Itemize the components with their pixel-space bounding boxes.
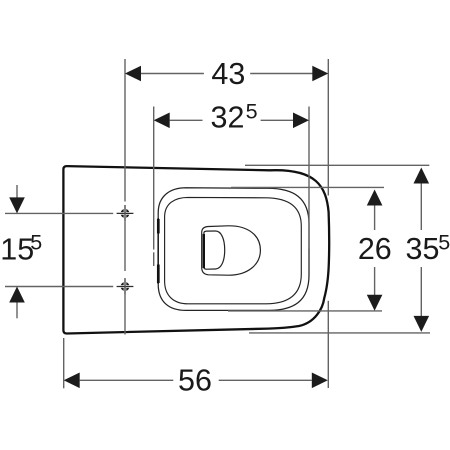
- seat buffer lower: [157, 265, 160, 284]
- arrow 32.5 left: [154, 113, 170, 129]
- seat outer contour: [158, 188, 309, 311]
- fixing hole symbol upper: [117, 205, 134, 222]
- svg-text:5: 5: [438, 231, 450, 255]
- extension line 26 top: [231, 186, 384, 188]
- svg-text:35: 35: [406, 232, 440, 266]
- extension line 26 bottom: [228, 310, 382, 312]
- dim line 56: [80, 379, 174, 381]
- extension line 32.5 left: [153, 107, 155, 250]
- bowl water outline: [202, 226, 261, 275]
- hole line lower: [5, 286, 113, 288]
- drain thick left edge: [203, 234, 205, 268]
- arrow 26 up: [367, 190, 383, 206]
- arrow 56 left: [64, 373, 80, 389]
- hole line upper: [5, 212, 113, 214]
- arrow 43 right: [312, 66, 328, 82]
- extension line 32.5 right: [308, 107, 310, 249]
- extension line 56 left: [63, 338, 65, 388]
- seat buffer upper: [157, 219, 160, 234]
- toilet outer outline: [63, 166, 329, 333]
- arrow 15.5 up: [9, 287, 25, 303]
- leader 15.5 bottom: [16, 302, 18, 318]
- extension line 35.5 top: [245, 164, 429, 166]
- arrows: [9, 66, 429, 388]
- svg-text:26: 26: [358, 232, 392, 266]
- arrow 32.5 right: [293, 113, 309, 129]
- arrow 43 left: [125, 66, 141, 82]
- dim line 32.5: [170, 119, 203, 121]
- svg-text:5: 5: [30, 231, 42, 255]
- arrow 26 down: [367, 295, 383, 311]
- seat left edge dark band: [157, 218, 159, 284]
- extension line 43+56 right: [327, 59, 329, 196]
- dim line 43: [141, 73, 204, 75]
- arrow 35.5 down: [414, 316, 430, 332]
- extension line 35.5 bottom: [249, 332, 430, 334]
- extension line 43 left / holes vertical: [5, 59, 430, 388]
- svg-text:32: 32: [211, 101, 245, 135]
- svg-text:56: 56: [178, 364, 212, 398]
- dim line 35.5: [420, 183, 422, 230]
- svg-text:43: 43: [211, 57, 245, 91]
- arrow 35.5 up: [414, 168, 430, 184]
- arrow 56 right: [312, 373, 328, 389]
- leader 15.5 top: [16, 185, 18, 198]
- drain outline: [204, 231, 225, 269]
- dim line 26: [374, 205, 376, 230]
- fixing hole symbol lower: [117, 278, 134, 295]
- svg-text:15: 15: [0, 233, 34, 267]
- svg-text:5: 5: [246, 100, 258, 124]
- arrow 15.5 down: [9, 197, 25, 213]
- seat inner contour: [165, 197, 302, 303]
